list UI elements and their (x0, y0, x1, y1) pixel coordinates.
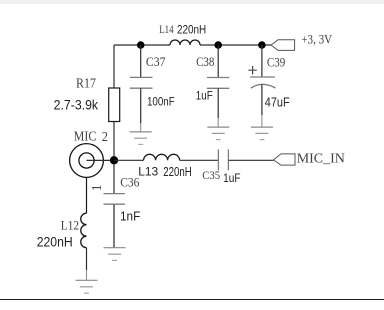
ground under C36 (104, 248, 126, 261)
node junction dot at C39 tap (258, 41, 266, 49)
ground under C39 (251, 127, 273, 140)
svg-text:L13: L13 (138, 165, 158, 179)
wire left vertical bus lower (113, 122, 115, 161)
inductor L14 (170, 40, 200, 45)
wire L12 to ground (86, 248, 88, 270)
ground under L12 (76, 280, 98, 293)
svg-text:100nF: 100nF (147, 96, 175, 108)
wire left vertical bus upper (113, 45, 115, 88)
wire C35 to port (228, 159, 273, 161)
svg-text:1: 1 (90, 184, 105, 191)
capacitor C36 (113, 164, 115, 194)
inductor L13 (144, 154, 180, 160)
ground under C38 (207, 127, 229, 140)
svg-text:1uF: 1uF (223, 173, 240, 185)
svg-text:220nH: 220nH (177, 24, 206, 36)
svg-text:MIC_IN: MIC_IN (297, 152, 345, 167)
svg-text:220nH: 220nH (37, 234, 73, 250)
svg-text:1uF: 1uF (196, 91, 213, 103)
wire MIC bottom to L12 (86, 177, 88, 213)
wire top rail right segment (200, 44, 271, 46)
svg-text:C35: C35 (202, 168, 220, 182)
svg-text:C39: C39 (267, 56, 285, 70)
power port +3.3V (271, 40, 295, 51)
svg-text:+3, 3V: +3, 3V (301, 33, 332, 47)
svg-text:R17: R17 (76, 76, 96, 91)
svg-text:2.7-3.9k: 2.7-3.9k (54, 96, 99, 112)
plus polarity mark (248, 66, 256, 74)
svg-text:C38: C38 (196, 55, 214, 69)
node junction dot MIC output (110, 156, 118, 164)
wire MIC node to L13 (114, 159, 144, 161)
svg-text:L14: L14 (159, 22, 173, 36)
resistor R17 (109, 88, 120, 122)
capacitor C38 (217, 45, 219, 78)
microphone MIC (70, 144, 104, 178)
wire L13 to C35 (180, 159, 219, 161)
svg-text:47uF: 47uF (265, 94, 290, 109)
wire top rail left segment (114, 44, 170, 46)
svg-text:C37: C37 (146, 55, 166, 69)
capacitor C39 (polarized) (261, 45, 263, 77)
svg-text:L12: L12 (61, 219, 79, 233)
node junction dot at C37 tap (137, 41, 145, 49)
ground under C37 (130, 132, 152, 145)
svg-text:220nH: 220nH (163, 165, 192, 179)
bottom rule (0, 299, 384, 300)
inductor L12 (81, 213, 87, 248)
node junction dot at C38 tap (214, 41, 222, 49)
svg-text:1nF: 1nF (120, 208, 140, 223)
svg-text:MIC: MIC (74, 128, 97, 143)
port MIC_IN (274, 154, 296, 165)
svg-text:C36: C36 (120, 176, 139, 190)
capacitor C35 (217, 149, 219, 170)
svg-text:2: 2 (102, 129, 108, 144)
capacitor C37 (140, 45, 142, 77)
